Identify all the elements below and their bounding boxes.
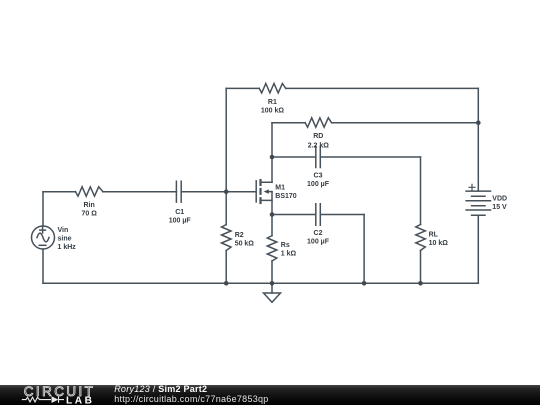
svg-text:1 kΩ: 1 kΩ xyxy=(281,251,297,258)
svg-text:RL: RL xyxy=(429,232,439,239)
svg-text:15 V: 15 V xyxy=(492,204,507,211)
svg-text:100 µF: 100 µF xyxy=(169,217,192,224)
svg-text:R2: R2 xyxy=(235,232,244,239)
svg-text:VDD: VDD xyxy=(492,196,507,203)
svg-text:LAB: LAB xyxy=(66,395,94,405)
svg-text:BS170: BS170 xyxy=(275,193,297,200)
svg-text:Rs: Rs xyxy=(281,242,290,249)
svg-text:1 kHz: 1 kHz xyxy=(58,244,77,251)
svg-text:Rin: Rin xyxy=(84,202,95,209)
svg-text:100 µF: 100 µF xyxy=(307,239,330,246)
svg-text:C2: C2 xyxy=(314,230,323,237)
svg-text:70 Ω: 70 Ω xyxy=(82,210,98,217)
svg-text:sine: sine xyxy=(58,236,72,243)
svg-text:Rory123 / Sim2 Part2: Rory123 / Sim2 Part2 xyxy=(114,385,207,394)
svg-text:RD: RD xyxy=(313,133,323,140)
svg-text:Vin: Vin xyxy=(58,227,69,234)
svg-text:C1: C1 xyxy=(175,209,184,216)
svg-text:100 kΩ: 100 kΩ xyxy=(261,108,285,115)
svg-text:R1: R1 xyxy=(268,99,277,106)
svg-text:2.2 kΩ: 2.2 kΩ xyxy=(308,142,330,149)
svg-text:50 kΩ: 50 kΩ xyxy=(235,240,255,247)
svg-text:http://circuitlab.com/c77na6e7: http://circuitlab.com/c77na6e7853qp xyxy=(114,394,268,404)
svg-text:C3: C3 xyxy=(314,172,323,179)
svg-text:M1: M1 xyxy=(275,185,285,192)
svg-text:10 kΩ: 10 kΩ xyxy=(429,240,449,247)
svg-text:100 µF: 100 µF xyxy=(307,181,330,188)
